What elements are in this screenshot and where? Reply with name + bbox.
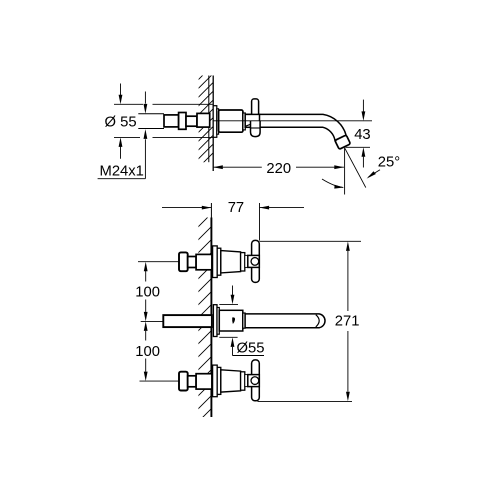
svg-text:220: 220 (266, 161, 291, 177)
angle vertex vertical line (344, 148, 346, 195)
spout tube (side view) (246, 114, 346, 140)
25 deg leader (369, 170, 381, 177)
top cross handle bar (252, 240, 260, 282)
bottom valve cap (179, 372, 188, 391)
dimension 43 arrows (362, 100, 364, 112)
wall line extension up to 77 dim (210, 203, 212, 218)
dimension 100 upper (145, 271, 147, 282)
cross handle hub (side view) (245, 114, 259, 127)
spout escutcheon (213, 305, 217, 337)
svg-text:77: 77 (228, 200, 244, 216)
svg-text:100: 100 (135, 344, 160, 360)
cross handle front arm (side view) (251, 121, 261, 137)
dimension 220 line (213, 166, 262, 168)
top valve block (196, 254, 212, 269)
wall hatch (top view) (190, 58, 220, 176)
bottom valve stem (188, 376, 196, 387)
union collar (179, 113, 186, 130)
spout base body (side view) (219, 110, 243, 132)
svg-text:M24x1: M24x1 (100, 164, 144, 180)
dimension 77 (162, 207, 211, 209)
bottom cross handle hub (248, 375, 259, 387)
dimension 100 lower (145, 331, 147, 341)
dimension 271 extension lines (260, 240, 362, 242)
top hub front arm circle (251, 258, 259, 266)
dimension O55 (bottom view) (232, 286, 234, 296)
extension line handle edge (259, 203, 261, 241)
bottom valve block (196, 374, 212, 389)
spout base (219, 310, 243, 331)
top valve end ring (241, 253, 245, 271)
angle arc (322, 179, 343, 187)
bottom valve escutcheon (213, 365, 218, 397)
hub slant line (245, 121, 259, 126)
top cross handle hub (248, 255, 259, 267)
top valve cap (179, 252, 188, 271)
spout outlet nozzle (335, 135, 351, 149)
wall surface line (top view), extended down as 220 extension (212, 76, 214, 172)
wall hatch (bottom view) (192, 207, 218, 441)
bottom valve body (221, 370, 241, 392)
spout escutcheon step (217, 308, 219, 335)
union neck (186, 116, 197, 126)
25 deg stream line (345, 148, 366, 188)
union body block (164, 115, 179, 127)
spout base end cap (243, 313, 245, 328)
wall inner line (top view) (208, 76, 210, 114)
dimension O55 (bottom view) extension lines (219, 303, 238, 305)
bottom hub front arm circle (251, 377, 259, 385)
front arm joint line (251, 127, 261, 129)
top valve stem (188, 257, 196, 268)
bottom cross handle bar (252, 360, 260, 401)
dimension O55 arrows (120, 84, 122, 96)
extension line top row centerline (138, 261, 179, 263)
top valve body (221, 251, 241, 273)
wall surface line (bottom view) (210, 218, 212, 418)
dimension 271 line (347, 251, 349, 311)
spout tube (front view) (245, 314, 325, 328)
svg-text:43: 43 (354, 127, 370, 143)
M24x1 supply pipe (side view) (138, 113, 164, 115)
top valve link (245, 255, 248, 267)
extension line bottom row centerline (140, 380, 179, 382)
bottom valve escutcheon step (217, 367, 221, 394)
body end cap (243, 113, 245, 130)
top valve escutcheon (213, 246, 218, 278)
bottom valve end ring (241, 372, 245, 390)
svg-text:100: 100 (135, 285, 160, 301)
svg-text:Ø55: Ø55 (237, 340, 265, 356)
escutcheon flange (side view) (213, 106, 217, 138)
M24x1 label and pointers (98, 178, 146, 180)
svg-text:271: 271 (335, 314, 360, 330)
bottom valve link (245, 375, 248, 387)
cross handle upper arm (side view) (252, 99, 259, 116)
concealed valve block at wall (197, 113, 210, 127)
svg-text:Ø 55: Ø 55 (105, 114, 137, 130)
supply pipe (163, 315, 212, 327)
dimension 43 extension line (346, 146, 371, 148)
extension line middle centerline (141, 320, 163, 322)
spout centerline (213, 120, 372, 122)
dimension O55 (top view) extension lines (114, 103, 143, 105)
spout base logo mark (232, 317, 235, 324)
top valve escutcheon step (217, 248, 221, 275)
tube end inner arc (316, 315, 319, 327)
svg-text:25°: 25° (378, 155, 400, 171)
